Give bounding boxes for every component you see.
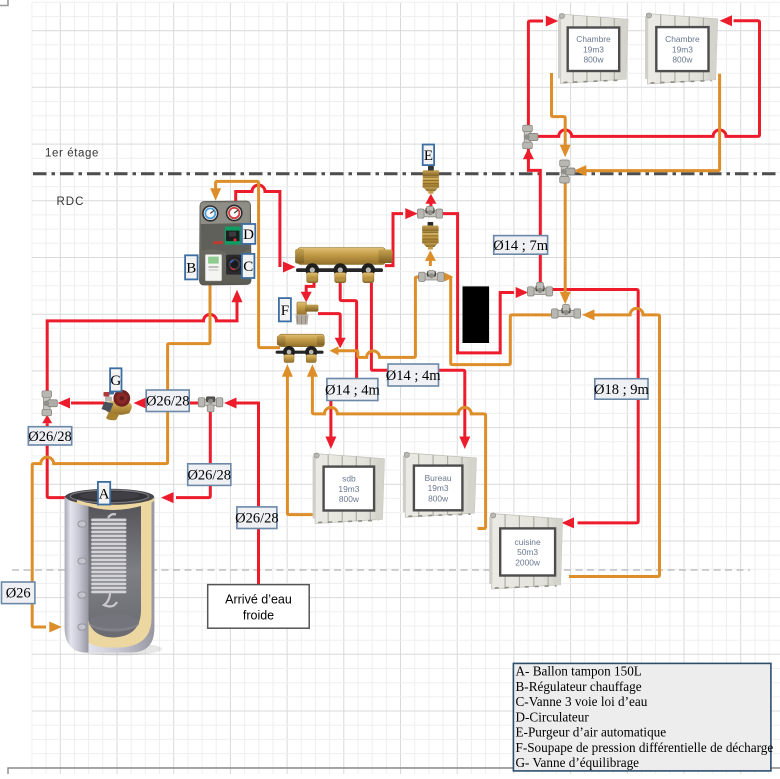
label O26/28 near G [146, 390, 190, 412]
arrow up into V8 [523, 148, 534, 159]
radiator Chambre 1 [558, 13, 628, 83]
radiator Bureau [403, 452, 477, 517]
box arrivee eau froide [208, 585, 310, 629]
legend box [513, 663, 773, 771]
connector E label to purgeur [428, 166, 434, 171]
svg-text:Ø14 ; 4m: Ø14 ; 4m [325, 382, 381, 398]
arrow down into F valve [301, 292, 312, 303]
svg-text:Ø26/28: Ø26/28 [235, 511, 279, 527]
svg-text:Ø14 ; 7m: Ø14 ; 7m [493, 238, 549, 254]
floor separator line [33, 172, 780, 175]
wire red G..V3 behind label [146, 402, 199, 405]
svg-text:Chambre: Chambre [576, 34, 611, 44]
svg-text:C: C [243, 259, 253, 275]
svg-text:19m3: 19m3 [672, 44, 693, 54]
purgeur air vent 1 (E) [423, 167, 440, 194]
label letter C [242, 254, 255, 278]
arrow down into pump top [210, 188, 221, 201]
wire red V3 bottom down then left into tank right [176, 411, 210, 498]
svg-text:cuisine: cuisine [515, 537, 541, 547]
svg-text:Arrivé d’eau: Arrivé d’eau [225, 593, 292, 607]
svg-text:Ø26/28: Ø26/28 [28, 429, 72, 445]
arrow right into manifold left end [283, 262, 296, 273]
label O14;4m (bureau) [386, 364, 442, 386]
label O26/28 tank inlet [187, 464, 231, 486]
arrow left into Chambre2 [720, 15, 733, 26]
purgeur air vent 2 [422, 222, 439, 250]
svg-text:Ø14 ; 4m: Ø14 ; 4m [386, 368, 442, 384]
brass manifold (2-way, return) [276, 334, 325, 362]
svg-text:Ø18 ; 9m: Ø18 ; 9m [594, 382, 650, 398]
arrow down into sdb [325, 437, 336, 450]
tee V6 red distribution [528, 282, 553, 296]
arrow into pump bottom [232, 290, 243, 303]
label O26 [2, 582, 35, 604]
svg-text:50m3: 50m3 [517, 547, 538, 557]
wire orange pump bottom-left to tank bottom (hop over red x=47.2) [32, 285, 210, 628]
arrow left into G valve [134, 398, 147, 409]
valve F soupape differentielle [296, 302, 319, 325]
arrow left into V9 right [574, 165, 587, 176]
label letter D [242, 224, 255, 244]
label letter E [423, 145, 434, 166]
svg-text:Ø26/28: Ø26/28 [187, 468, 231, 484]
svg-text:800w: 800w [583, 55, 604, 65]
wire red below label into sdb [329, 401, 332, 439]
arrow up into small manifold port1 [282, 364, 293, 377]
arrow down into Bureau [459, 437, 470, 450]
svg-text:D: D [243, 227, 254, 243]
wire red horizontal to pump bottom (hop over orange x=210) [47, 300, 237, 323]
arrow right from V5 [445, 273, 454, 282]
label letter F [279, 298, 291, 321]
valve V1 left isolation valve [42, 391, 57, 416]
wire red branch to Chambre2 (hops over orange x=565.2 and x=719.6) [536, 21, 760, 137]
wire red manifold outlet3 right and down to Bureau [371, 282, 464, 439]
ballon tampon 150L (A) [65, 489, 162, 656]
svg-text:Ø26/28: Ø26/28 [146, 394, 190, 410]
brass manifold (3-way, supply) [295, 248, 392, 284]
svg-text:D-Circulateur: D-Circulateur [516, 709, 590, 724]
wire orange radiator1 bottom down to V9 [552, 73, 566, 148]
valve V3 tee near cold water [198, 397, 223, 412]
wire orange radiator2 bottom down then left to V9 [585, 74, 720, 171]
radiator sdb [313, 453, 385, 524]
arrow left into cuisine [562, 517, 575, 528]
wire red manifold outlet1 to F valve [306, 282, 314, 293]
arrow left into tank right side [161, 492, 174, 503]
svg-text:Bureau: Bureau [425, 473, 452, 483]
label O18;9m [594, 379, 650, 400]
label O14;4m (sdb) [325, 379, 381, 401]
wire red manifold right end up to E tee [385, 214, 403, 266]
wire red V6 top up through label to valve V8 and radiators [528, 149, 540, 283]
arrow down into V7 [560, 292, 571, 305]
wire red V4 right, around black rect, to V6 [442, 214, 514, 353]
wire red V3..cold water riser [237, 403, 259, 584]
svg-text:froide: froide [243, 609, 274, 623]
svg-text:C-Vanne 3 voie loi d’eau: C-Vanne 3 voie loi d’eau [516, 694, 648, 709]
svg-text:E-Purgeur d’air automatique: E-Purgeur d’air automatique [516, 725, 667, 740]
tee V5 orange below purgeur2 [419, 271, 445, 282]
label O14;7m [493, 236, 549, 255]
wire red F valve side discharge down to orange line [318, 314, 340, 339]
wire red manifold outlet2 down to label O14;4m [340, 282, 356, 379]
arrow right into Chambre1 [546, 16, 559, 27]
svg-text:B-Régulateur chauffage: B-Régulateur chauffage [516, 679, 642, 694]
pump group (B regulator / C valve / D circulator) [200, 201, 252, 285]
tee V9 orange upstairs return [560, 160, 575, 183]
wire orange return from V5-left down to small manifold right (hop over red x=373) [336, 277, 419, 357]
arrow left at small manifold right end [330, 346, 339, 355]
label O26/28 left riser [28, 427, 72, 445]
arrow down from F onto return [335, 338, 346, 349]
arrow down into V9 [560, 145, 571, 158]
svg-text:sdb: sdb [342, 474, 356, 484]
arrow right into tank bottom-left [49, 622, 62, 633]
wire orange small manifold port1 down to sdb [287, 374, 315, 515]
wire red V8 up to radiator Chambre1 [528, 21, 543, 126]
svg-text:RDC: RDC [57, 196, 85, 208]
arrow right into V6 [516, 287, 529, 298]
tee V7 orange collector [552, 305, 581, 319]
svg-text:800w: 800w [339, 494, 360, 504]
svg-text:F: F [281, 303, 289, 319]
label letter A [98, 482, 110, 505]
label O26/28 cold water [235, 507, 279, 529]
page corner marks [0, 0, 8, 6]
svg-text:E: E [424, 148, 433, 164]
svg-text:Ø26: Ø26 [6, 586, 31, 602]
arrow left into V1 [58, 398, 71, 409]
svg-text:Chambre: Chambre [665, 34, 700, 44]
tee V4 at purgeur E [418, 206, 443, 218]
svg-text:19m3: 19m3 [428, 483, 449, 493]
wire orange small manifold port2 down, right to Bureau (hops x=330.9, x=464.8) [312, 374, 485, 529]
radiator Chambre 2 [645, 13, 718, 84]
arrow up from V5 into purgeur2 [425, 250, 436, 261]
valve V8 thermostatic on riser [523, 125, 538, 149]
arrow left into V7 right [582, 309, 595, 320]
wire orange V5 right, down, right, up to V7 left [445, 277, 552, 365]
arrow left into V3 [224, 398, 237, 409]
wire red below V1 down into tank top-left [47, 423, 66, 497]
wire red return tank-left vertical up to pump line [46, 321, 49, 391]
svg-text:800w: 800w [672, 55, 693, 65]
svg-text:19m3: 19m3 [583, 45, 604, 55]
svg-text:G: G [110, 373, 121, 389]
label letter G [110, 368, 121, 391]
svg-text:B: B [186, 261, 196, 277]
label letter B [185, 255, 198, 279]
svg-text:A- Ballon tampon 150L: A- Ballon tampon 150L [516, 664, 642, 679]
wire red main horizontal y=403 V1..G [71, 402, 104, 405]
svg-text:A: A [99, 486, 110, 502]
wire orange V7 right, from cuisine return (hop over red x=638.2) [569, 308, 660, 576]
dashed reference line [12, 569, 750, 571]
wire orange V9 bottom down to V7 [564, 183, 567, 295]
arrow up into valve V1 [42, 415, 52, 424]
black rectangle (chimney/boiler flue) [463, 286, 490, 343]
svg-text:1er étage: 1er étage [45, 148, 99, 160]
wire red pump top-right over to manifold left (hop over orange x=258.6) [236, 185, 280, 267]
wire orange into pump top-left from right [216, 181, 280, 347]
arrow up from purgeur1 into V4 [425, 194, 436, 204]
svg-text:G- Vanne d’équilibrage: G- Vanne d’équilibrage [516, 755, 640, 770]
radiator cuisine [489, 513, 562, 589]
svg-text:800w: 800w [428, 493, 449, 503]
svg-text:19m3: 19m3 [338, 484, 359, 494]
valve G equilibrage [102, 390, 132, 420]
svg-text:2000w: 2000w [515, 557, 541, 567]
arrow up into small manifold port2 [307, 364, 318, 377]
wire red V6 right then down (O18;9m) to cuisine [553, 290, 639, 523]
arrow right into tee V4 [405, 208, 418, 219]
svg-text:F-Soupape de pression différen: F-Soupape de pression différentielle de … [516, 740, 774, 755]
